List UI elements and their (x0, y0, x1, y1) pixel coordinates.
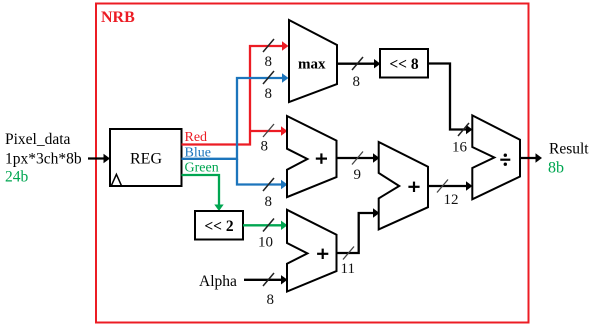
wire adder3 to divider (428, 185, 468, 187)
svg-text:Alpha: Alpha (199, 273, 237, 290)
svg-text:1px*3ch*8b: 1px*3ch*8b (5, 151, 82, 168)
wire adder2 to adder3 (337, 213, 375, 253)
NRB block border (96, 4, 529, 323)
wire result output (520, 157, 537, 159)
svg-text:8b: 8b (548, 160, 564, 177)
wire alpha (244, 279, 283, 281)
slash bus red max input (263, 39, 274, 52)
slash bus blue adder1 input (263, 178, 274, 191)
svg-text:8: 8 (267, 292, 275, 308)
slash bus max output (352, 57, 363, 70)
wire adder1 to adder3 (337, 157, 375, 159)
wire blue from REG (182, 78, 284, 159)
svg-text:10: 10 (258, 234, 273, 250)
svg-text:12: 12 (444, 192, 459, 208)
slash bus 16 (458, 123, 469, 136)
adder U1 (R+B) (287, 116, 337, 197)
adder U2 (G2+Alpha) (287, 210, 337, 292)
svg-text:24b: 24b (5, 169, 29, 186)
max unit (289, 20, 337, 102)
register REG (110, 129, 182, 186)
wire blue branch to adder1 (237, 159, 282, 185)
shifter << 8 (380, 49, 428, 78)
svg-text:<< 8: << 8 (389, 56, 419, 73)
svg-text:REG: REG (130, 151, 162, 168)
wire shifter2 to adder2 (243, 224, 283, 226)
wire shifter8 to divider (428, 64, 468, 130)
svg-text:<< 2: << 2 (204, 218, 234, 235)
wire red from REG (182, 46, 284, 145)
wire red branch to adder1 (250, 130, 282, 132)
clock input triangle (112, 174, 122, 185)
svg-text:Red: Red (185, 130, 208, 145)
wire green from REG to shifter (182, 175, 220, 206)
slash bus red adder1 input (263, 124, 274, 137)
slash bus 9 (352, 152, 363, 165)
svg-text:8: 8 (265, 86, 273, 102)
svg-text:8: 8 (261, 139, 269, 155)
wire max output (337, 63, 376, 65)
adder U3 (sum) (379, 142, 428, 229)
divider U4 (472, 115, 520, 199)
svg-text:11: 11 (341, 261, 355, 277)
slash bus 11 (343, 247, 354, 260)
svg-text:8: 8 (353, 74, 361, 90)
svg-text:16: 16 (452, 139, 468, 155)
svg-text:max: max (298, 57, 326, 73)
wire pixel_data input (88, 157, 105, 159)
slash bus blue max input (263, 71, 274, 84)
svg-text:8: 8 (265, 194, 273, 210)
slash bus 10 (263, 219, 274, 232)
svg-text:Green: Green (185, 161, 219, 176)
slash bus alpha (263, 273, 274, 286)
svg-text:8: 8 (265, 54, 273, 70)
svg-text:9: 9 (354, 167, 362, 183)
slash bus 12 (437, 180, 448, 193)
svg-text:Pixel_data: Pixel_data (5, 131, 71, 148)
svg-text:NRB: NRB (101, 9, 135, 26)
shifter << 2 (195, 211, 243, 240)
svg-text:Result: Result (549, 141, 589, 158)
